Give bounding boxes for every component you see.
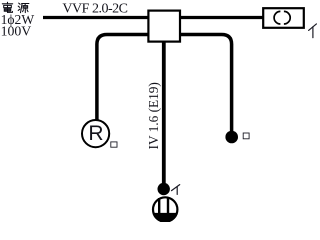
svg-text:IV 1.6 (E19): IV 1.6 (E19) (146, 82, 161, 149)
svg-text:VVF 2.0-2C: VVF 2.0-2C (62, 2, 128, 17)
svg-text:100V: 100V (1, 23, 32, 38)
svg-text:R: R (88, 122, 103, 145)
